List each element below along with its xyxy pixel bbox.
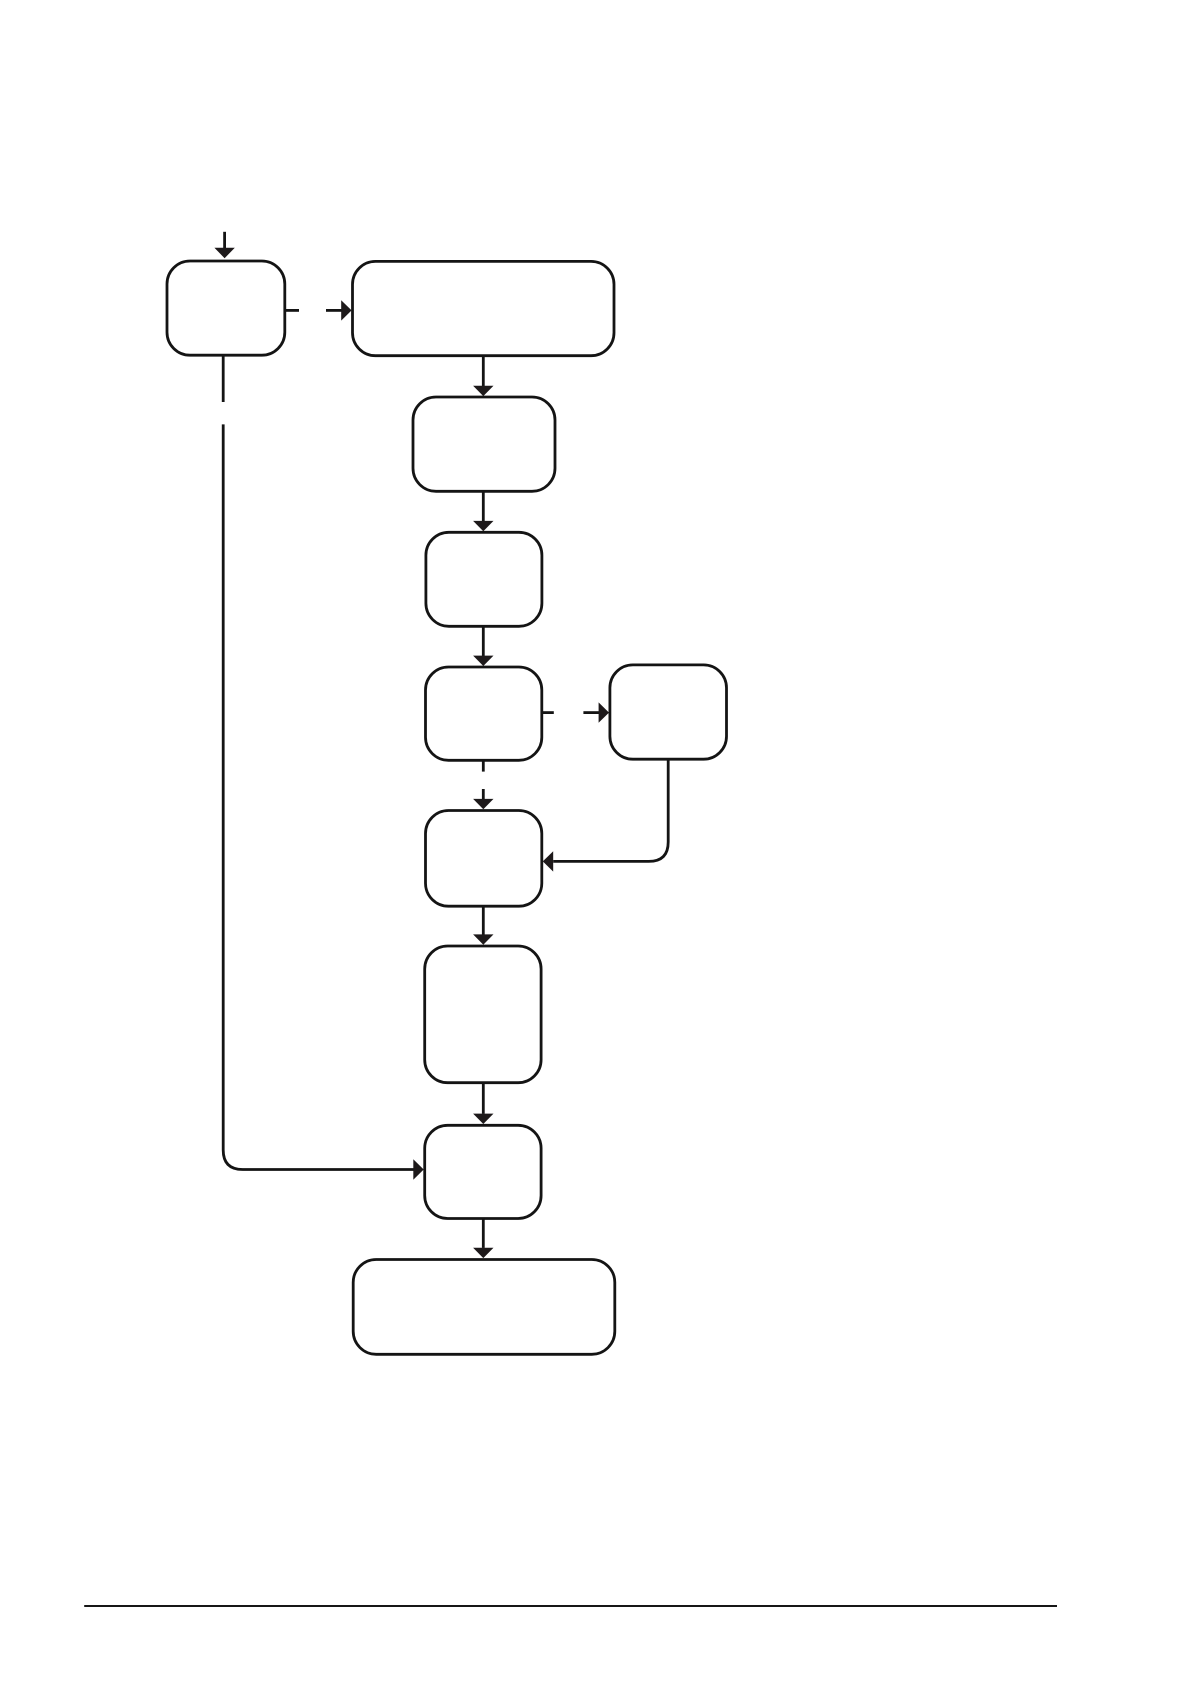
connector box6 down-left hook into box7 [553,760,668,862]
arrow box7 to box8 shaft [482,906,485,934]
connector box1 to box2: arrow shaft [326,309,342,312]
long left connector from box1: upper dash segment [222,355,225,402]
connector box5 to box6: arrow shaft [583,711,599,714]
box 4 [426,532,542,626]
box 1 (top-left start box) [167,261,285,355]
box 5 [426,667,542,760]
connector box5 to box6: dash segment [543,711,554,714]
long left connector from box1: main hook into box9 [223,424,414,1169]
connector box5 to box7: dash segment [482,760,485,771]
box 6 (right side box) [610,665,727,759]
box 9 [425,1125,541,1218]
arrowhead into box8 top [473,934,493,944]
arrow box2 to box3 shaft [482,355,485,386]
entry arrow shaft into box 1 [223,232,226,248]
arrowhead into box1 top [214,248,234,258]
arrowhead into box5 top [473,656,493,666]
arrowhead into box3 top [473,386,493,396]
arrow box8 to box9 shaft [482,1083,485,1114]
arrowhead into box6 left [599,702,609,722]
arrow box9 to box10 shaft [482,1218,485,1248]
arrowhead into box7 top [473,799,493,809]
arrow box3 to box4 shaft [482,491,485,521]
box 7 [426,811,542,907]
arrowhead into box9 top [473,1114,493,1124]
box 8 (tall box) [425,946,541,1083]
connector box1 to box2: dash segment [284,309,299,312]
arrowhead into box10 top [473,1248,493,1258]
connector box5 to box7: arrow shaft [482,789,485,799]
box 3 [413,397,555,491]
arrowhead into box2 left [341,300,351,320]
footer rule [84,1605,1057,1607]
arrowhead into box4 top [473,521,493,531]
box 2 (wide box top) [353,261,615,355]
arrow box4 to box5 shaft [482,626,485,656]
arrowhead into box7 right (from box6 hook) [543,851,553,871]
box 10 (wide end box) [353,1260,615,1355]
arrowhead into box9 left (from long left hook) [413,1159,423,1179]
